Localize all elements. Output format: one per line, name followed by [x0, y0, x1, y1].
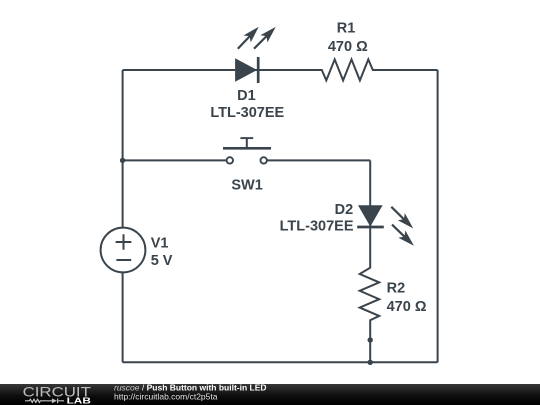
svg-text:5 V: 5 V: [151, 253, 173, 269]
svg-text:470 Ω: 470 Ω: [387, 299, 427, 315]
svg-text:D1: D1: [237, 88, 256, 104]
svg-text:LAB: LAB: [67, 396, 92, 405]
svg-text:LTL-307EE: LTL-307EE: [280, 218, 354, 234]
svg-text:D2: D2: [335, 202, 354, 218]
svg-text:LTL-307EE: LTL-307EE: [210, 105, 284, 121]
svg-text:R1: R1: [337, 20, 356, 36]
svg-text:470 Ω: 470 Ω: [328, 39, 368, 55]
svg-text:SW1: SW1: [231, 178, 262, 194]
svg-text:R2: R2: [387, 281, 406, 297]
svg-text:V1: V1: [151, 236, 169, 252]
svg-text:http://circuitlab.com/ct2p5ta: http://circuitlab.com/ct2p5ta: [114, 391, 218, 401]
